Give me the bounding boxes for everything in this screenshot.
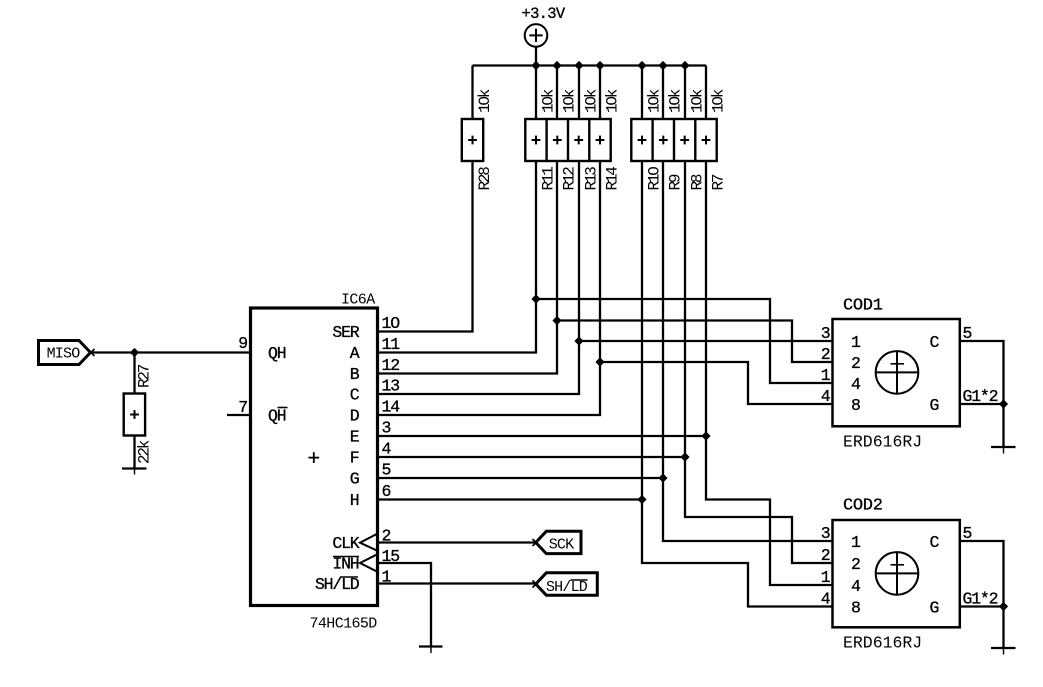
- wire bus to R9: [662, 66, 664, 120]
- svg-text:H: H: [350, 491, 359, 510]
- wire bus to R12: [556, 66, 558, 120]
- wire bus to R7: [705, 66, 707, 120]
- junction bus: [552, 61, 561, 70]
- svg-text:+3.3V: +3.3V: [521, 5, 565, 23]
- wire net G (R9, IC pin 5, COD2 w1): [378, 161, 833, 541]
- svg-text:1Ok: 1Ok: [604, 89, 622, 113]
- resistor R28 10k: [462, 119, 483, 161]
- svg-text:IC6A: IC6A: [341, 292, 375, 309]
- junction bus: [595, 61, 604, 70]
- svg-text:R7: R7: [710, 174, 728, 190]
- svg-text:ERD616RJ: ERD616RJ: [843, 433, 922, 452]
- op-amp U IC6A box: [251, 308, 378, 606]
- ground below COD2: [991, 647, 1016, 649]
- flag MISO: [39, 341, 91, 365]
- svg-text:COD2: COD2: [843, 497, 883, 516]
- resistor group R10 R9 R8 R7 10k: [631, 119, 716, 161]
- svg-text:E: E: [350, 428, 360, 447]
- svg-text:4: 4: [821, 590, 831, 609]
- wire net E (R7, IC pin 3, COD2 w4): [378, 161, 833, 585]
- svg-text:1Ok: 1Ok: [646, 89, 664, 113]
- svg-text:G: G: [930, 599, 939, 618]
- svg-text:3: 3: [821, 524, 830, 543]
- power +3.3V supply symbol: [525, 24, 548, 65]
- wire bus to R13: [578, 66, 580, 120]
- svg-text:R14: R14: [604, 167, 622, 191]
- junction net D: [595, 357, 604, 366]
- svg-text:8: 8: [851, 396, 860, 415]
- svg-text:R27: R27: [136, 364, 154, 388]
- svg-text:5: 5: [382, 461, 391, 480]
- wire bus to R1O: [641, 66, 643, 120]
- svg-text:1Ok: 1Ok: [710, 89, 728, 113]
- junction net E: [701, 431, 710, 440]
- wire COD1 pin5 to ground: [959, 341, 1004, 447]
- rotary encoder COD2 box: [833, 520, 960, 627]
- svg-text:1: 1: [821, 366, 831, 385]
- wire net A (R11, IC pin 11, COD1 w4): [378, 161, 833, 383]
- svg-text:A: A: [350, 344, 360, 363]
- svg-text:1Ok: 1Ok: [583, 89, 601, 113]
- wire net F (R8, IC pin 4, COD2 w2): [378, 161, 833, 563]
- svg-text:R9: R9: [667, 174, 685, 190]
- svg-text:9: 9: [238, 334, 247, 353]
- svg-text:C: C: [930, 533, 940, 552]
- svg-text:1: 1: [851, 533, 861, 552]
- svg-text:CLK: CLK: [332, 534, 359, 553]
- resistor group R11 R12 R13 R14 10k: [525, 119, 610, 161]
- wire COD2 pin5 to ground: [959, 541, 1004, 648]
- encoder COD2 rotor symbol: [876, 552, 919, 595]
- junction bus: [574, 61, 583, 70]
- wire bus to R8: [684, 66, 686, 120]
- svg-text:11: 11: [382, 335, 401, 354]
- svg-text:3: 3: [382, 419, 391, 438]
- svg-text:1: 1: [821, 568, 831, 587]
- junction bus: [637, 61, 646, 70]
- svg-text:4: 4: [851, 577, 861, 596]
- svg-text:ERD616RJ: ERD616RJ: [843, 633, 922, 652]
- encoder COD1 rotor symbol: [876, 351, 919, 394]
- ground below R27: [122, 467, 147, 469]
- flag MISO tip arrow: [88, 349, 95, 356]
- svg-text:22k: 22k: [136, 440, 154, 464]
- clock chevron CLK: [360, 534, 378, 551]
- wire +3.3V bus: [473, 64, 707, 66]
- svg-text:2: 2: [821, 345, 830, 364]
- svg-text:4: 4: [851, 375, 861, 394]
- clock chevron INH: [360, 554, 378, 572]
- ground below INH: [419, 645, 443, 647]
- svg-text:R11: R11: [540, 167, 558, 191]
- svg-text:4: 4: [382, 440, 392, 459]
- wire net MISO: [90, 351, 251, 353]
- junction COD1 G: [999, 399, 1008, 408]
- wire bus to R14: [599, 66, 601, 120]
- svg-text:2: 2: [821, 546, 830, 565]
- svg-text:1Ok: 1Ok: [540, 89, 558, 113]
- wire net SH/LD: [378, 582, 537, 584]
- wire bus to R11: [535, 66, 537, 120]
- svg-text:3: 3: [821, 324, 830, 343]
- svg-text:C: C: [350, 386, 360, 405]
- junction MISO R27: [130, 348, 139, 357]
- wire R27 top: [133, 353, 135, 394]
- svg-text:1Ok: 1Ok: [476, 89, 494, 113]
- svg-text:1Ok: 1Ok: [561, 89, 579, 113]
- junction bus: [680, 61, 689, 70]
- svg-text:2: 2: [851, 555, 860, 574]
- svg-text:74HC165D: 74HC165D: [310, 616, 378, 633]
- junction bus: [658, 61, 667, 70]
- svg-text:2: 2: [851, 354, 860, 373]
- svg-text:1: 1: [851, 333, 861, 352]
- flag SH/LD tip arrow: [533, 581, 540, 588]
- svg-text:D: D: [350, 407, 360, 426]
- flag SCK: [536, 531, 581, 553]
- svg-text:QH: QH: [268, 407, 286, 426]
- svg-text:SER: SER: [332, 323, 359, 342]
- svg-text:G: G: [350, 470, 359, 489]
- wire net B (R12, IC pin 12, COD1 w2): [378, 161, 833, 374]
- svg-text:INH: INH: [332, 555, 358, 574]
- wire net SER (R28 to IC pin 10): [378, 161, 473, 332]
- junction bus: [531, 61, 540, 70]
- svg-text:R1O: R1O: [646, 167, 664, 191]
- junction COD2 G: [999, 602, 1008, 611]
- svg-text:1Ok: 1Ok: [667, 89, 685, 113]
- wire net C (R13, IC pin 13, COD1 w1): [378, 161, 833, 394]
- svg-text:R28: R28: [476, 167, 494, 191]
- svg-text:C: C: [930, 333, 940, 352]
- flag SH/LD: [536, 573, 598, 595]
- svg-text:R13: R13: [583, 167, 601, 191]
- flag SCK tip arrow: [533, 539, 540, 546]
- svg-text:SH/LD: SH/LD: [546, 579, 588, 596]
- svg-text:14: 14: [382, 398, 401, 417]
- svg-text:MISO: MISO: [47, 346, 81, 363]
- svg-text:8: 8: [851, 599, 860, 618]
- wire IC pin 7 stub: [227, 414, 251, 416]
- junction net H: [637, 495, 646, 504]
- svg-text:1Ok: 1Ok: [689, 89, 707, 113]
- IC value placeholder +: [308, 452, 319, 463]
- svg-text:4: 4: [821, 387, 831, 406]
- rotary encoder COD1 box: [833, 319, 960, 426]
- wire R27 bottom: [133, 436, 135, 470]
- svg-text:6: 6: [382, 482, 391, 501]
- wire net SCK: [378, 541, 537, 543]
- svg-text:COD1: COD1: [843, 297, 883, 316]
- svg-text:SH/LD: SH/LD: [315, 575, 360, 594]
- junction net F: [680, 452, 689, 461]
- svg-text:QH: QH: [268, 344, 286, 363]
- svg-text:1O: 1O: [382, 314, 401, 333]
- svg-text:B: B: [350, 365, 360, 384]
- svg-text:F: F: [350, 449, 359, 468]
- svg-text:R8: R8: [689, 174, 707, 190]
- svg-text:G: G: [930, 396, 939, 415]
- wire net D (R14, IC pin 14, COD1 w8): [378, 161, 833, 415]
- ground below COD1: [991, 446, 1016, 448]
- svg-text:13: 13: [382, 377, 400, 396]
- junction net G: [658, 473, 667, 482]
- wire bus to R28: [471, 66, 473, 120]
- junction net C: [574, 336, 583, 345]
- wire net INH to ground: [378, 563, 432, 647]
- resistor R27 22k: [124, 394, 145, 436]
- junction net A: [531, 294, 540, 303]
- svg-text:12: 12: [382, 356, 400, 375]
- svg-text:SCK: SCK: [549, 537, 574, 554]
- wire net H (R10, IC pin 6, COD2 w8): [378, 161, 833, 607]
- svg-text:R12: R12: [561, 167, 579, 191]
- junction net B: [552, 316, 561, 325]
